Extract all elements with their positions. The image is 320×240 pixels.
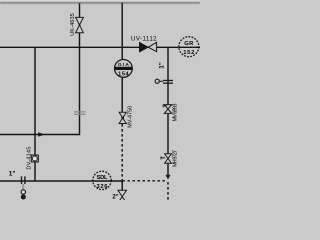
svg-text:1": 1" bbox=[159, 62, 166, 69]
svg-text:SDL: SDL bbox=[97, 175, 108, 181]
svg-text:1": 1" bbox=[9, 170, 16, 177]
svg-text:152: 152 bbox=[183, 50, 194, 56]
svg-text:MV 6993: MV 6993 bbox=[173, 104, 179, 122]
svg-text:MV-4750: MV-4750 bbox=[128, 106, 134, 128]
svg-text:326: 326 bbox=[97, 184, 109, 190]
svg-text:MH 9727: MH 9727 bbox=[173, 150, 179, 167]
svg-text:DV-4145: DV-4145 bbox=[27, 147, 33, 170]
svg-text:2": 2" bbox=[112, 195, 118, 200]
svg-text:UV-1112: UV-1112 bbox=[131, 37, 157, 43]
svg-text:GR: GR bbox=[184, 41, 194, 47]
svg-text:154: 154 bbox=[118, 71, 129, 77]
svg-text:GIA: GIA bbox=[118, 62, 130, 68]
svg-text:UK-4635: UK-4635 bbox=[70, 13, 76, 36]
